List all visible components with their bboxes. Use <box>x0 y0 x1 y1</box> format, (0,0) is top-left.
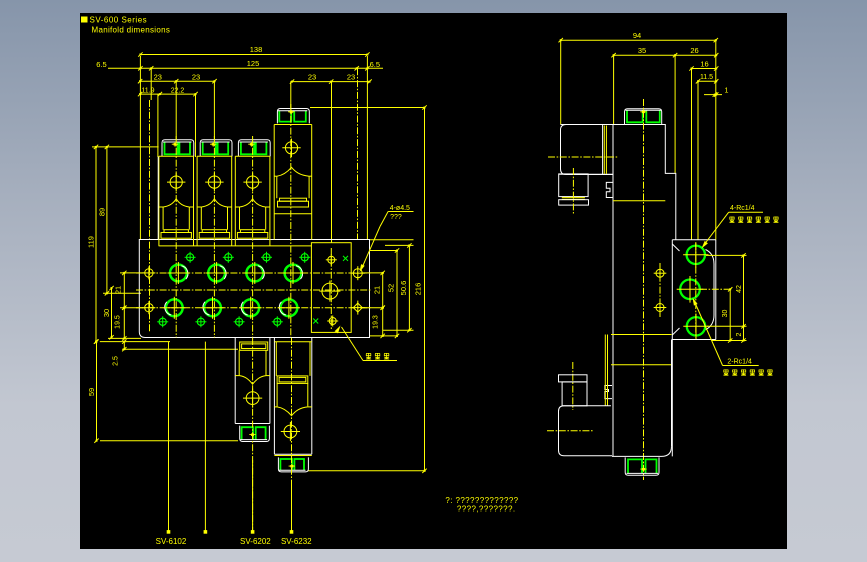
svg-text:SV-6232: SV-6232 <box>281 537 312 546</box>
svg-text:????,???????.: ????,???????. <box>457 504 516 513</box>
svg-text:4-Rc1/4: 4-Rc1/4 <box>730 205 755 212</box>
svg-text:52: 52 <box>387 284 396 292</box>
svg-text:4-ø4.5: 4-ø4.5 <box>390 205 410 212</box>
svg-text:???: ??? <box>390 214 402 221</box>
svg-text:22.2: 22.2 <box>171 87 185 94</box>
svg-text:26: 26 <box>690 46 698 55</box>
svg-text:1: 1 <box>725 87 729 94</box>
svg-text:59: 59 <box>87 388 96 396</box>
svg-text:30: 30 <box>722 310 729 318</box>
svg-text:19.3: 19.3 <box>373 315 380 329</box>
svg-text:21: 21 <box>372 286 381 294</box>
svg-text:11.9: 11.9 <box>141 87 154 94</box>
svg-text:23: 23 <box>192 72 200 81</box>
svg-text:94: 94 <box>633 31 641 40</box>
svg-text:21: 21 <box>114 286 123 294</box>
svg-text:6.5: 6.5 <box>96 60 106 69</box>
svg-text:SV-6102: SV-6102 <box>156 537 187 546</box>
svg-text:35: 35 <box>638 46 646 55</box>
svg-text:42: 42 <box>736 285 743 293</box>
svg-text:2.5: 2.5 <box>113 356 120 366</box>
svg-text:19.5: 19.5 <box>115 315 122 329</box>
svg-text:Manifold dimensions: Manifold dimensions <box>92 26 171 35</box>
svg-text:6.5: 6.5 <box>370 60 380 69</box>
svg-text:11.5: 11.5 <box>700 74 713 81</box>
svg-text:119: 119 <box>87 236 96 248</box>
svg-text:2: 2 <box>736 332 743 336</box>
svg-text:SV-600 Series: SV-600 Series <box>90 16 148 25</box>
svg-text:30: 30 <box>102 309 111 317</box>
svg-text:89: 89 <box>98 208 107 216</box>
svg-text:16: 16 <box>700 59 708 68</box>
svg-text:138: 138 <box>250 45 263 54</box>
svg-text:125: 125 <box>247 59 260 68</box>
svg-text:50.6: 50.6 <box>399 281 408 296</box>
svg-text:216: 216 <box>414 283 423 296</box>
svg-text:SV-6202: SV-6202 <box>240 537 271 546</box>
svg-text:23: 23 <box>347 73 355 82</box>
svg-text:2-Rc1/4: 2-Rc1/4 <box>727 359 752 366</box>
svg-text:23: 23 <box>154 72 162 81</box>
svg-text:23: 23 <box>308 73 316 82</box>
